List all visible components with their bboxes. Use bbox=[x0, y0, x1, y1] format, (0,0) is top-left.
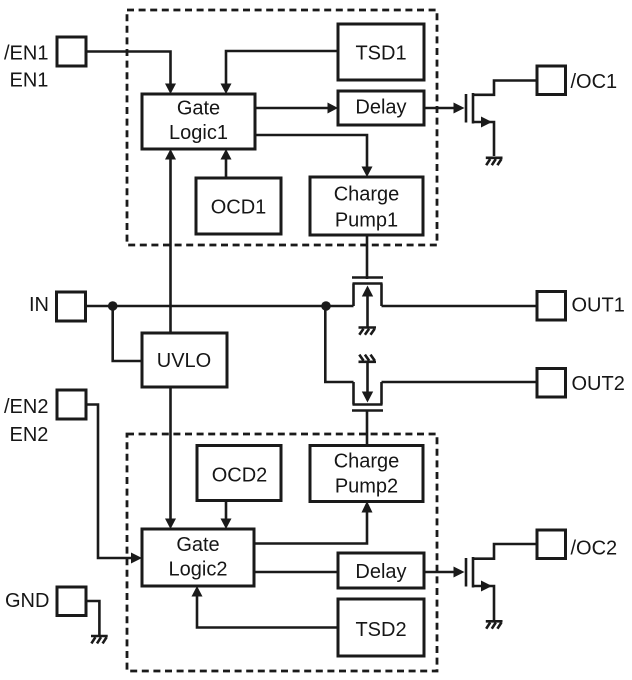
block UVLO bbox=[142, 333, 227, 387]
pin /OC2 bbox=[537, 530, 617, 560]
wire /EN1 pin to Gate Logic1 bbox=[86, 52, 171, 86]
wire IN to M2 source bbox=[325, 306, 353, 382]
wire Delay1 to Q1 gate bbox=[424, 107, 455, 110]
block OCD2 bbox=[197, 446, 281, 501]
pin /EN1 EN1 bbox=[4, 37, 86, 92]
pin IN bbox=[29, 292, 86, 321]
block OCD1 bbox=[196, 178, 281, 234]
block Gate Logic1 bbox=[142, 94, 255, 149]
svg-text:/EN2: /EN2 bbox=[4, 396, 48, 418]
transistor Q1 (/OC1 open drain) bbox=[466, 81, 537, 157]
svg-text:GND: GND bbox=[5, 590, 49, 612]
wire Gate Logic1 to Delay1 bbox=[255, 107, 329, 110]
svg-text:Gate: Gate bbox=[177, 98, 220, 120]
svg-text:Pump1: Pump1 bbox=[335, 210, 398, 232]
wire TSD1 to Gate Logic1 bbox=[226, 51, 338, 85]
block Charge Pump2 bbox=[310, 446, 423, 502]
svg-text:/OC2: /OC2 bbox=[571, 538, 618, 560]
node IN-M2 junction bbox=[321, 301, 331, 311]
power MOSFET M1 (OUT1 switch) bbox=[352, 278, 383, 328]
svg-text:EN2: EN2 bbox=[10, 424, 49, 446]
wire IN rail bbox=[86, 305, 354, 308]
pin /OC1 bbox=[537, 66, 617, 95]
wire Charge Pump1 to M1 gate bbox=[366, 235, 369, 279]
wire OCD2 to Gate Logic2 bbox=[225, 501, 228, 520]
svg-text:Charge: Charge bbox=[334, 451, 400, 473]
svg-text:/OC1: /OC1 bbox=[571, 71, 618, 93]
svg-text:Charge: Charge bbox=[334, 184, 400, 206]
svg-text:Delay: Delay bbox=[355, 97, 406, 119]
svg-text:Delay: Delay bbox=[355, 561, 406, 583]
svg-text:OUT2: OUT2 bbox=[572, 373, 625, 395]
pin OUT2 bbox=[537, 369, 625, 398]
svg-text:/EN1: /EN1 bbox=[4, 43, 48, 65]
svg-text:Pump2: Pump2 bbox=[335, 476, 398, 498]
power MOSFET M2 (OUT2 switch) bbox=[352, 362, 383, 411]
svg-text:UVLO: UVLO bbox=[157, 350, 211, 372]
transistor Q2 (/OC2 open drain) bbox=[466, 544, 537, 620]
block Delay2 bbox=[338, 553, 424, 588]
svg-text:Logic1: Logic1 bbox=[169, 122, 228, 144]
node IN-UVLO junction bbox=[108, 301, 118, 311]
svg-text:EN1: EN1 bbox=[10, 70, 49, 92]
pin OUT1 bbox=[537, 292, 625, 321]
svg-text:TSD2: TSD2 bbox=[355, 619, 406, 641]
IC boundary dashed box 2 (bottom channel) bbox=[127, 434, 437, 671]
block TSD1 bbox=[338, 24, 424, 80]
pin /EN2 EN2 bbox=[4, 390, 86, 446]
svg-text:Logic2: Logic2 bbox=[169, 559, 228, 581]
wire Gate Logic2 to Charge Pump2 bbox=[254, 512, 367, 544]
ground symbol Q2 source bbox=[486, 621, 503, 628]
svg-text:OCD1: OCD1 bbox=[211, 197, 267, 219]
wire Delay2 to Q2 gate bbox=[423, 571, 455, 574]
wire Gate Logic2 to Delay2 bbox=[254, 571, 339, 574]
svg-text:OUT1: OUT1 bbox=[572, 295, 625, 317]
wire TSD2 to Gate Logic2 bbox=[197, 596, 339, 628]
wire UVLO down to Gate Logic2 bbox=[169, 387, 172, 520]
wire IN to UVLO bbox=[113, 306, 142, 361]
svg-text:TSD1: TSD1 bbox=[355, 43, 406, 65]
block Gate Logic2 bbox=[142, 529, 254, 586]
wire M1 to OUT1 pin bbox=[382, 305, 538, 308]
substrate symbol of M1 bbox=[359, 328, 377, 335]
block Charge Pump1 bbox=[310, 177, 423, 235]
wire Charge Pump2 to M2 gate bbox=[366, 411, 369, 445]
ground symbol Q1 source bbox=[486, 158, 503, 165]
substrate symbol of M2 bbox=[359, 355, 377, 362]
block TSD2 bbox=[338, 599, 424, 656]
block Delay1 bbox=[338, 91, 424, 125]
wire UVLO up to Gate Logic1 bbox=[169, 158, 172, 333]
svg-text:Gate: Gate bbox=[176, 534, 219, 556]
pin GND bbox=[5, 587, 86, 616]
wire OCD1 to Gate Logic1 bbox=[225, 158, 228, 178]
IC boundary dashed box 1 (top channel) bbox=[127, 10, 437, 245]
wire M2 to OUT2 pin bbox=[382, 381, 538, 384]
wire GND pin to ground bbox=[86, 601, 99, 635]
svg-text:IN: IN bbox=[29, 294, 49, 316]
svg-text:OCD2: OCD2 bbox=[212, 465, 268, 487]
wire Gate Logic1 to Charge Pump1 bbox=[255, 135, 367, 168]
ground symbol GND pin bbox=[91, 636, 108, 643]
wire /EN2 pin to Gate Logic2 bbox=[86, 405, 131, 559]
